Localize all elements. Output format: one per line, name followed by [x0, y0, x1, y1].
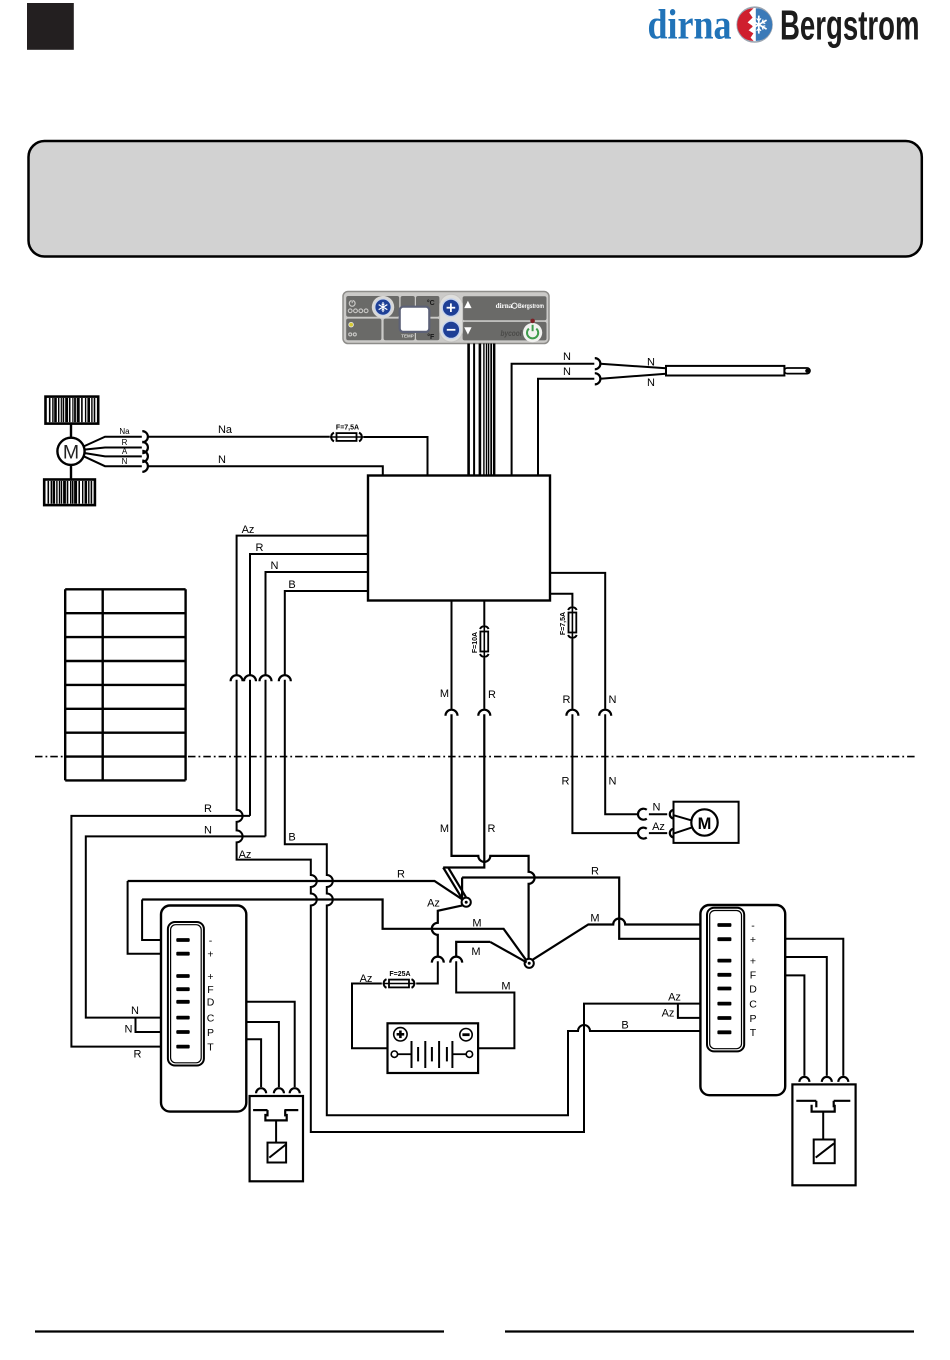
connector condenser Az male: [670, 829, 674, 838]
connector breaks relay K1: [256, 1088, 300, 1093]
svg-text:+: +: [750, 934, 756, 946]
svg-text:R: R: [562, 776, 570, 788]
wire R (unit bottom to fuse F-10A): [483, 601, 485, 626]
sensor lead wires: [600, 364, 666, 379]
connector breaks relay K2: [799, 1077, 848, 1082]
wire Na (motor connector to fuse F-7,5A): [148, 436, 330, 438]
svg-text:M: M: [471, 946, 480, 958]
svg-text:Az: Az: [668, 992, 681, 1004]
right heater control panel (connector) X2: [700, 905, 785, 1095]
label R (switch feed): [397, 868, 405, 880]
page title block (black square): [27, 3, 74, 50]
label N (sensor upper left): [563, 351, 571, 363]
relay K1 (left): [250, 1096, 303, 1181]
label Az: [242, 524, 255, 536]
label R (horizontal run): [204, 803, 212, 815]
panel indicator icons (bottom-left cell): [349, 322, 357, 335]
svg-text:Bergstrom: Bergstrom: [780, 2, 920, 49]
panel snowflake button: [372, 296, 394, 318]
svg-text:A: A: [122, 447, 128, 456]
svg-text:R: R: [591, 865, 599, 877]
svg-text:N: N: [271, 560, 279, 572]
wire N (unit right down): [550, 573, 605, 709]
svg-text:N: N: [218, 454, 226, 466]
footer rule right: [505, 1330, 914, 1332]
right heater pin contacts: [717, 923, 731, 1034]
svg-text:Az: Az: [662, 1007, 675, 1019]
wire R (down to fan switch): [443, 714, 484, 867]
svg-text:N: N: [204, 824, 212, 836]
logo wordmark dirna: [648, 3, 732, 49]
footer rule left: [35, 1330, 444, 1332]
svg-text:N: N: [647, 377, 655, 389]
wire M (battery to break): [456, 961, 514, 1048]
label Az (mid drop): [239, 849, 252, 861]
svg-text:dirna: dirna: [496, 302, 513, 310]
svg-text:N: N: [563, 351, 571, 363]
wire Az (connector to motor): [649, 832, 667, 834]
label R (upper): [488, 689, 496, 701]
svg-text:Bergstrom: Bergstrom: [518, 304, 544, 310]
svg-text:B: B: [288, 831, 295, 843]
svg-text:R: R: [256, 542, 264, 554]
temperature probe B1: [666, 366, 810, 376]
wire N (control unit to sensor, lower): [538, 379, 594, 476]
label N (left heater pin C): [131, 1005, 139, 1017]
connector break M mid: [446, 710, 458, 716]
panel mode indicator icons (top-left cell): [348, 300, 368, 313]
wire N (drop to horizontal run): [265, 680, 267, 837]
svg-text:N: N: [122, 457, 128, 466]
svg-text:M: M: [63, 441, 79, 463]
fan shaft wires: [70, 424, 72, 480]
panel label degC: [427, 299, 435, 307]
label Az (fuse 25A): [360, 973, 373, 985]
label R (right pair upper): [563, 694, 571, 706]
svg-text:N: N: [131, 1005, 139, 1017]
condenser fan motor M2: [674, 802, 739, 843]
wire R (fuse to break): [483, 658, 485, 709]
wire R (fuse down to break): [571, 639, 573, 709]
empty note box (grey rounded rectangle): [29, 141, 922, 257]
label N (left heater pin P): [125, 1023, 133, 1035]
label N (right pair upper): [609, 694, 617, 706]
wire R (unit right to fuse F-7,5A): [550, 594, 572, 606]
switch pivot lower: [525, 959, 534, 968]
label N (condenser): [653, 801, 661, 813]
logo icon (red flame / blue snowflake sphere): [737, 7, 772, 42]
svg-text:+: +: [207, 949, 213, 961]
svg-text:N: N: [609, 776, 617, 788]
svg-text:R: R: [204, 803, 212, 815]
label B (unit left): [288, 579, 295, 591]
label N (right pair lower): [609, 776, 617, 788]
svg-text:F=7,5A: F=7,5A: [560, 612, 567, 635]
label M (battery): [501, 980, 510, 992]
ribbon cable from control panel to control unit: [467, 344, 495, 477]
label N: [218, 454, 226, 466]
control unit U1 (main box): [368, 476, 550, 601]
svg-text:B: B: [621, 1019, 628, 1031]
svg-text:M: M: [501, 980, 510, 992]
motor M1 pigtail wires Na/R/A/N with connectors: [84, 427, 148, 472]
svg-text:N: N: [125, 1023, 133, 1035]
connector break R mid: [478, 710, 490, 716]
svg-text:T: T: [750, 1027, 757, 1039]
svg-text:R: R: [134, 1048, 142, 1060]
label M (battery feed upper): [471, 946, 480, 958]
svg-text:F=25A: F=25A: [389, 971, 410, 978]
label M (to right heater): [590, 912, 599, 924]
wire N (down to condenser motor N lead): [605, 714, 637, 814]
connector break B: [279, 675, 291, 681]
wire M (down to fan switch input): [452, 714, 535, 959]
wire R (horizontal run to left heater pin T): [71, 816, 250, 1047]
svg-text:Az: Az: [427, 898, 440, 910]
chassis separation dash-dot line: [35, 756, 915, 758]
panel up/down arrows: [464, 301, 471, 335]
svg-text:M: M: [698, 815, 712, 833]
blower fan wheels (hatched): [44, 397, 98, 506]
connector break Az switch: [432, 957, 444, 963]
svg-text:B: B: [288, 579, 295, 591]
svg-text:N: N: [609, 694, 617, 706]
svg-text:M: M: [440, 823, 449, 835]
label R (to right heater): [591, 865, 599, 877]
label Az (right heater pin C): [668, 992, 681, 1004]
wire N (control unit to sensor, upper): [512, 364, 595, 476]
wire M (battery feed diagonal to lower pivot): [490, 942, 527, 963]
label N (horizontal run): [204, 824, 212, 836]
connector break N right: [599, 710, 611, 716]
wire R (left vertical to heater pin +): [128, 881, 177, 954]
wire R (drop to horizontal run): [249, 680, 251, 816]
right heater pin labels: [749, 920, 757, 1039]
label R (left heater pin T): [134, 1048, 142, 1060]
svg-text:Az: Az: [239, 849, 252, 861]
svg-text:P: P: [749, 1013, 756, 1025]
left heater pin contacts: [176, 938, 189, 1048]
fuse F4 F=25A: [383, 971, 416, 988]
fuse F1 F=7,5A: [330, 425, 363, 442]
wire N (horizontal run to left heater pins C/P): [86, 836, 266, 1032]
connector break N: [260, 675, 272, 681]
svg-text:M: M: [472, 918, 481, 930]
blower motor M1: [57, 438, 84, 465]
svg-text:R: R: [397, 868, 405, 880]
wire B (unit to left drop): [285, 591, 368, 675]
svg-text:+: +: [750, 955, 756, 967]
control panel body: [343, 292, 549, 344]
wires left heater to relay K1: [246, 1002, 294, 1087]
connector sensor lower: [595, 373, 601, 384]
connector break Az: [231, 675, 243, 681]
label N (sensor body upper): [647, 356, 655, 368]
label N (sensor lower left): [563, 366, 571, 378]
label N (unit left): [271, 560, 279, 572]
label R: [256, 542, 264, 554]
wire Na (fuse to control unit): [363, 437, 427, 476]
wire R (switch to right heater pin +): [462, 878, 719, 939]
label Az (switch): [427, 898, 440, 910]
svg-text:N: N: [647, 356, 655, 368]
svg-text:Na: Na: [218, 424, 233, 436]
svg-text:N: N: [653, 801, 661, 813]
svg-text:Az: Az: [652, 821, 665, 833]
left heater pin labels: [207, 935, 215, 1054]
panel bycool text: [501, 329, 523, 338]
svg-text:F: F: [207, 984, 213, 996]
wire Az (switch pivot down to fuse F-25A): [432, 905, 463, 956]
wire Az (fuse to battery +): [352, 984, 388, 1049]
svg-text:R: R: [488, 823, 496, 835]
svg-text:°C: °C: [427, 299, 435, 307]
panel logo text: [496, 302, 544, 310]
svg-text:-: -: [751, 920, 755, 932]
svg-text:P: P: [207, 1027, 214, 1039]
wire N (connector to motor): [649, 813, 667, 815]
svg-text:C: C: [207, 1012, 215, 1024]
wire B (drop, across, down right side to right heater pin T): [285, 680, 719, 1115]
svg-text:Az: Az: [242, 524, 255, 536]
wire M (switch lower pivot to right heater pin -): [531, 919, 719, 961]
svg-text:C: C: [749, 998, 757, 1010]
connector condenser N female: [638, 809, 647, 820]
wire N (unit to left drop): [266, 572, 369, 675]
relay K2 (right): [792, 1084, 855, 1185]
wire N (motor connector to control unit): [148, 466, 383, 475]
logo wordmark Bergstrom: [780, 2, 920, 49]
wire Az (drop, across, down right side to right heater pins C/P): [237, 680, 719, 1132]
label Az (condenser): [652, 821, 665, 833]
svg-text:dirna: dirna: [648, 3, 732, 49]
panel label degF: [427, 333, 435, 341]
wire M (unit bottom down): [451, 601, 453, 709]
panel display (TEMP): [400, 307, 430, 339]
svg-text:+: +: [207, 971, 213, 983]
svg-text:M: M: [590, 912, 599, 924]
svg-text:-: -: [209, 935, 213, 947]
connector break R right: [566, 710, 578, 716]
legend table (8 rows, empty): [65, 589, 185, 780]
svg-text:D: D: [207, 997, 215, 1009]
wire M (left vertical to heater pin -): [142, 900, 177, 941]
svg-text:R: R: [122, 438, 128, 447]
wire Az (break down to fuse): [416, 961, 438, 983]
connector condenser Az female: [638, 828, 647, 839]
wire R (down to condenser motor Az lead): [572, 714, 637, 833]
fuse F2 F=10A: [472, 625, 489, 658]
connector sensor upper: [595, 358, 601, 369]
svg-text:F: F: [750, 970, 756, 982]
label Na: [218, 424, 233, 436]
wire M (break up to diagonal): [456, 942, 490, 956]
panel power button with red LED: [523, 319, 542, 343]
wire M (from left heater - to switch area): [142, 900, 527, 962]
panel plus/minus buttons: [440, 294, 463, 342]
svg-text:M: M: [440, 688, 449, 700]
connector break M battery: [450, 957, 462, 963]
label R (lower): [488, 823, 496, 835]
svg-text:T: T: [207, 1041, 214, 1053]
svg-text:R: R: [563, 694, 571, 706]
wire Az (unit to left drop): [237, 536, 368, 675]
label Az (right heater pin P): [662, 1007, 675, 1019]
connector condenser N male: [670, 810, 674, 819]
left heater control panel (connector) X1: [161, 906, 246, 1112]
switch blade wedge (upper contact): [443, 868, 466, 900]
connector break R: [244, 675, 256, 681]
fuse F3 F=7,5A: [560, 606, 577, 639]
switch pivot upper: [462, 898, 471, 907]
wire R (unit to left drop): [250, 554, 368, 675]
svg-text:°F: °F: [427, 333, 435, 341]
svg-text:N: N: [563, 366, 571, 378]
svg-text:R: R: [488, 689, 496, 701]
svg-text:bycool: bycool: [501, 329, 523, 338]
wire R (feed from left heater + to switch): [128, 881, 463, 900]
label N (sensor body lower): [647, 377, 655, 389]
svg-text:Na: Na: [119, 427, 130, 436]
label M (upper): [440, 688, 449, 700]
battery G1: [388, 1023, 479, 1073]
svg-text:F=7,5A: F=7,5A: [336, 425, 359, 432]
svg-text:F=10A: F=10A: [472, 632, 479, 653]
svg-text:TEMP: TEMP: [401, 334, 414, 339]
label R (right pair lower): [562, 776, 570, 788]
label M (switch feed): [472, 918, 481, 930]
svg-text:D: D: [749, 983, 757, 995]
label B (mid drop): [288, 831, 295, 843]
label B (right heater pin T): [621, 1019, 628, 1031]
label M (lower): [440, 823, 449, 835]
wires right heater to relay K2: [785, 939, 843, 1076]
